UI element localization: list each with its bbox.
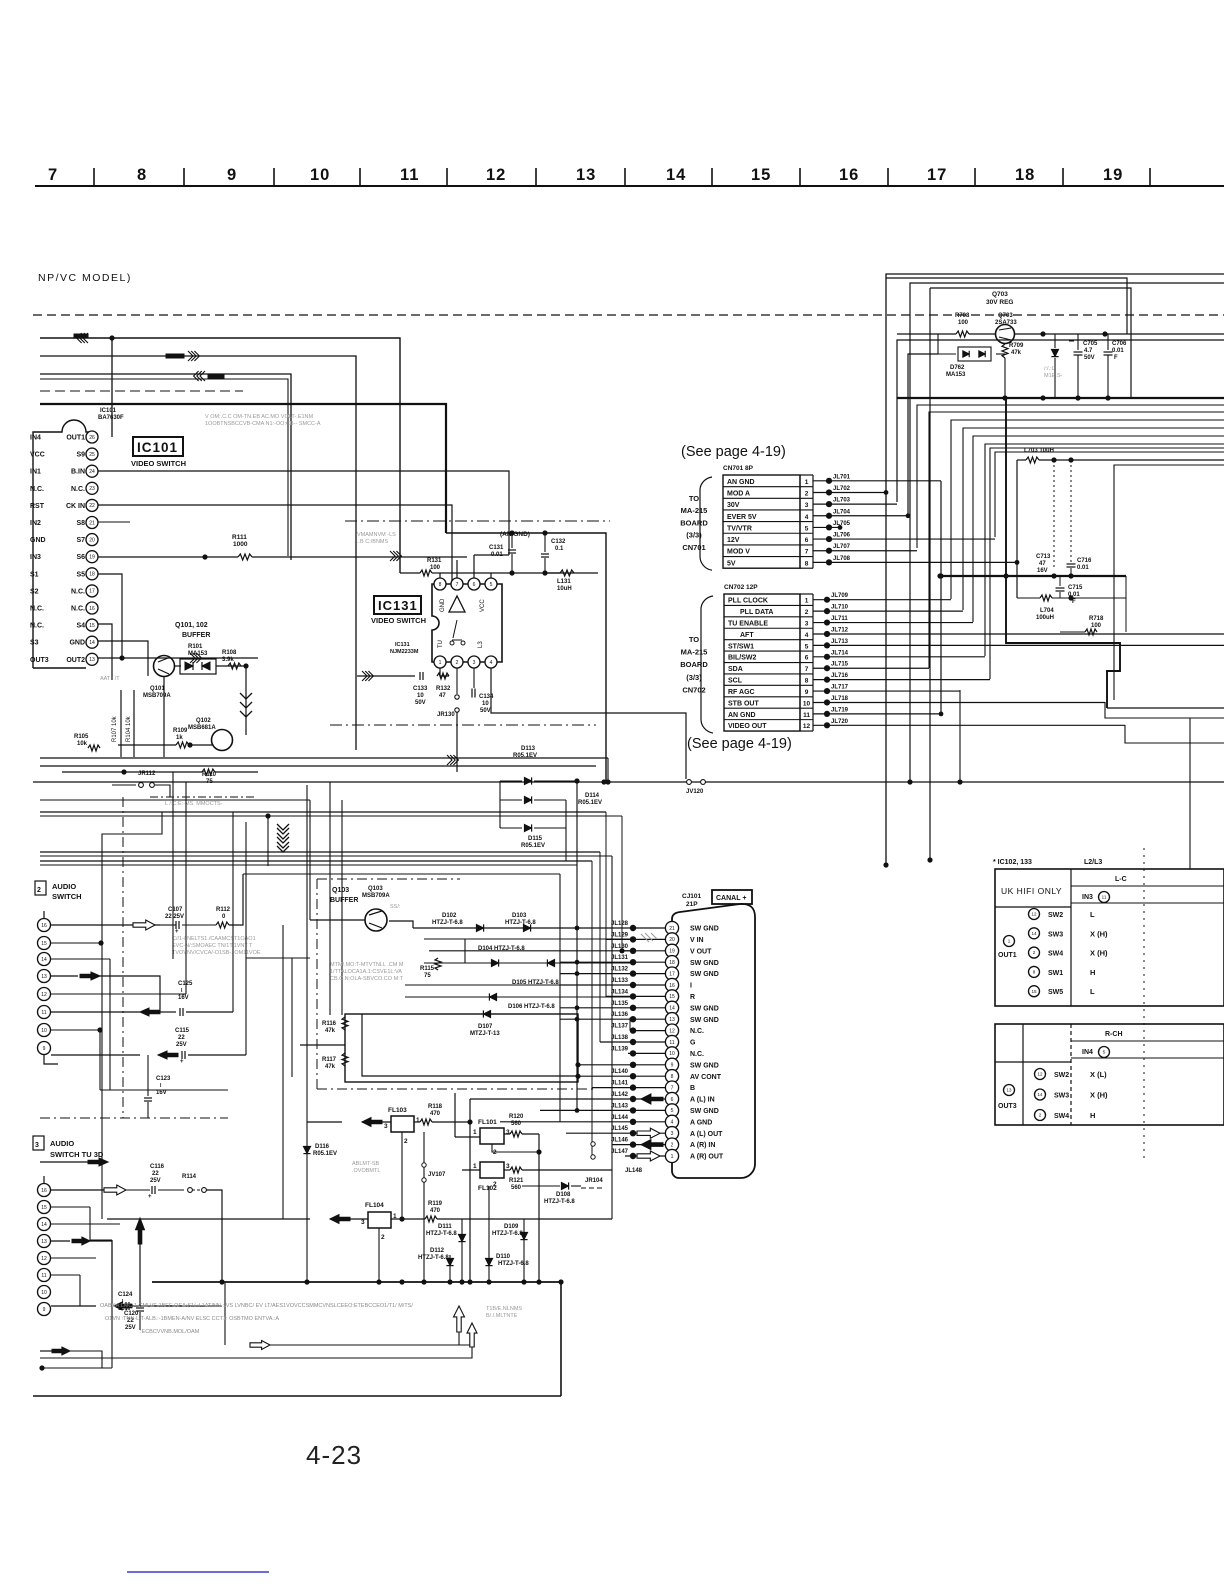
svg-text:1k: 1k (176, 735, 183, 741)
IC101 pin 14 GND (86, 636, 98, 648)
svg-text:560: 560 (511, 1121, 522, 1127)
CANAL pin 21 SW GND (665, 921, 678, 934)
svg-text:3: 3 (506, 1129, 510, 1136)
svg-text:VMAMNVM -LS: VMAMNVM -LS (357, 532, 396, 538)
svg-text:50V: 50V (1084, 355, 1095, 361)
svg-text:R709: R709 (1009, 343, 1024, 349)
CANAL pin 2 A (R) IN (665, 1138, 678, 1151)
svg-text:47k: 47k (325, 1028, 336, 1034)
wire Q102 collector (245, 666, 247, 735)
arrow in chevrons (83, 333, 88, 343)
wire long 874 (243, 873, 560, 875)
IC101 label box (133, 437, 183, 456)
audio switch tag 2 (33, 1136, 44, 1150)
svg-text:OUT3: OUT3 (998, 1103, 1017, 1110)
bus vertical JL717 (959, 690, 961, 782)
svg-text:S1: S1 (30, 571, 39, 578)
svg-text:5V: 5V (727, 560, 736, 567)
svg-text:10: 10 (310, 166, 330, 184)
svg-text:VIDEO OUT: VIDEO OUT (728, 723, 767, 730)
wire JL133 (560, 984, 665, 986)
svg-text:G: G (690, 1040, 696, 1047)
svg-text:47k: 47k (1011, 350, 1022, 356)
wire JL720 drop (1165, 743, 1167, 869)
svg-text:IC101: IC101 (137, 440, 178, 455)
wire 560 下 (559, 1041, 561, 1122)
wire dot row (42, 1367, 112, 1369)
svg-text:RF AGC: RF AGC (728, 689, 755, 696)
svg-text:BUFFER: BUFFER (330, 897, 358, 904)
svg-text:16: 16 (839, 166, 859, 184)
wire feeder 444 (985, 444, 1224, 656)
svg-text:3: 3 (506, 1163, 510, 1170)
svg-text:2: 2 (381, 1234, 385, 1241)
svg-text:L703 10uH: L703 10uH (1024, 448, 1054, 454)
svg-text:SW4: SW4 (1048, 951, 1063, 958)
svg-text:12: 12 (486, 166, 506, 184)
wire audio row 1 (51, 924, 160, 926)
block box inner edge (362, 1014, 578, 1076)
IC101 package outline (33, 420, 92, 668)
svg-text:C715: C715 (1068, 585, 1083, 591)
svg-text:D104 HTZJ-T-6.8: D104 HTZJ-T-6.8 (478, 946, 525, 952)
svg-text:S6: S6 (76, 554, 85, 561)
svg-text:EVC-N/:SMOAEC TN/1T.1VNT T: EVC-N/:SMOAEC TN/1T.1VNT T (172, 943, 253, 949)
IC101 pin 15 S4 (86, 619, 98, 631)
svg-text:TVOVNV/CVCA/-O1SB-. OM11VOE: TVOVNV/CVCA/-O1SB-. OM11VOE (172, 950, 261, 956)
note line (252, 1344, 470, 1346)
svg-text:Q103: Q103 (332, 887, 349, 894)
svg-text:AUDIO: AUDIO (50, 1139, 74, 1148)
svg-text:0.1: 0.1 (555, 546, 564, 552)
ruler tick (799, 168, 801, 186)
svg-text:21: 21 (669, 926, 675, 932)
CANAL pin 17 SW GND (665, 967, 678, 980)
svg-text:CB.C.N:OLA-SBVCO.CO M:T: CB.C.N:OLA-SBVCO.CO M:T (330, 976, 404, 982)
diode D107 (483, 1010, 490, 1017)
svg-text:AUDIO: AUDIO (52, 882, 76, 891)
svg-text:R131: R131 (427, 558, 442, 564)
wire video bus 5 thick (40, 404, 446, 533)
svg-text:D106 HTZJ-T-6.8: D106 HTZJ-T-6.8 (508, 1004, 555, 1010)
wire top right 2 (910, 283, 1224, 782)
svg-text:Q103: Q103 (368, 886, 383, 892)
svg-text:SW3: SW3 (1048, 931, 1063, 938)
svg-text:I: I (690, 983, 692, 990)
svg-text:AN GND: AN GND (728, 712, 756, 719)
wire audio2 row 4 (51, 1240, 70, 1242)
svg-text:D110: D110 (496, 1254, 511, 1260)
R-CH table (995, 1024, 1224, 1125)
svg-text:15: 15 (89, 623, 95, 629)
wire JL148 net (611, 856, 613, 1219)
svg-text:5: 5 (805, 643, 809, 650)
svg-text:BUFFER: BUFFER (182, 632, 210, 639)
svg-text:100: 100 (430, 565, 441, 571)
svg-text:JL141: JL141 (611, 1081, 629, 1087)
IC131 package body (432, 584, 502, 662)
IC101 pin 25 S9 (86, 448, 98, 460)
svg-text:AN GND: AN GND (727, 479, 755, 486)
wire JL141 (592, 1087, 665, 1089)
wire long 856 (40, 855, 612, 857)
svg-text:17: 17 (927, 166, 947, 184)
vertical link 268 (267, 816, 269, 866)
wire row 985 (405, 984, 577, 986)
wire audio row 2 (51, 942, 101, 944)
svg-text:S3: S3 (30, 640, 39, 647)
svg-text:A (R) OUT: A (R) OUT (690, 1154, 724, 1161)
IC131 internal switch (452, 620, 462, 640)
IC131 pins top (434, 578, 446, 590)
svg-text:R05.1EV: R05.1EV (578, 800, 602, 806)
svg-text:AAT : /T: AAT : /T (100, 676, 120, 682)
svg-text:7: 7 (805, 666, 809, 673)
CANAL pin 13 SW GND (665, 1013, 678, 1026)
svg-text:3: 3 (805, 502, 809, 509)
capacitor C705 (1077, 334, 1079, 350)
svg-text:SW GND: SW GND (690, 1017, 719, 1024)
svg-text:16V: 16V (178, 995, 189, 1001)
svg-text:* IC102, 133: * IC102, 133 (993, 859, 1032, 866)
svg-text:JL710: JL710 (831, 605, 849, 611)
svg-text:8: 8 (805, 678, 809, 685)
svg-text:C131: C131 (489, 545, 504, 551)
svg-text:IC131: IC131 (378, 598, 418, 613)
wire pin7 up (456, 560, 458, 578)
wire JL137 (630, 1030, 665, 1032)
wire JL719 (813, 713, 941, 715)
svg-text:SW GND: SW GND (690, 926, 719, 933)
svg-text:(3/3): (3/3) (686, 673, 702, 682)
svg-text:R121: R121 (509, 1178, 524, 1184)
svg-text:50V: 50V (480, 708, 491, 714)
svg-text:TO: TO (689, 494, 699, 503)
svg-text::ECBCVVNB.MOL/OAM: :ECBCVVNB.MOL/OAM (140, 1329, 200, 1335)
svg-text:3.9k: 3.9k (222, 657, 234, 663)
svg-text:TV/VTR: TV/VTR (727, 525, 752, 532)
svg-text:N.C.: N.C. (71, 588, 85, 595)
svg-text:14: 14 (666, 166, 686, 184)
svg-text:R120: R120 (509, 1114, 524, 1120)
svg-text:14: 14 (669, 1006, 675, 1012)
wire audio2 row 2 (51, 1206, 90, 1208)
arrow JL145 hollow (637, 1128, 660, 1138)
svg-text:16: 16 (669, 983, 675, 989)
svg-text:14: 14 (1031, 931, 1037, 936)
svg-text:1OOBTNSBCCVB-CMA N1:-OO:CB-- S: 1OOBTNSBCCVB-CMA N1:-OO:CB-- SMCC-A (205, 421, 321, 427)
shield dash-dot bottom (330, 724, 596, 726)
wire JL715 (813, 667, 929, 669)
svg-text:R708: R708 (955, 313, 970, 319)
capacitor C713 dashed (1053, 460, 1055, 570)
svg-text:JL702: JL702 (833, 486, 851, 492)
svg-text:12: 12 (803, 723, 811, 730)
CANAL pin 6 A (L) IN (665, 1092, 678, 1105)
vertical link 222 (221, 866, 223, 1190)
wire feeder 436 (973, 436, 1224, 622)
svg-text:S7: S7 (76, 537, 85, 544)
svg-text:R108: R108 (222, 650, 237, 656)
jumper JR130 (456, 668, 458, 694)
svg-text:SWITCH TU 3D: SWITCH TU 3D (50, 1150, 104, 1159)
wire audio row 8 (51, 1029, 100, 1031)
svg-text:5: 5 (805, 525, 809, 532)
svg-text:JL148: JL148 (625, 1168, 643, 1174)
wire JL134 (606, 995, 665, 997)
wire long 861 (40, 860, 592, 862)
wire JL147 (625, 1155, 665, 1157)
svg-text:4: 4 (671, 1120, 674, 1126)
transistor Q703 (996, 325, 1015, 344)
svg-text:13: 13 (41, 1239, 47, 1245)
svg-text:(3/3): (3/3) (686, 531, 702, 540)
wire JL720 step (1125, 725, 1224, 743)
resistor R709 47k (1002, 344, 1008, 358)
svg-text:6: 6 (805, 537, 809, 544)
svg-text:3: 3 (361, 1219, 365, 1226)
up arrow hollow 1 (454, 1306, 465, 1332)
svg-text:X (H): X (H) (1090, 929, 1108, 938)
svg-text:14: 14 (41, 1222, 47, 1228)
wire JL718 step (1105, 702, 1224, 718)
svg-text:L: L (1090, 987, 1095, 996)
CANAL pin 3 A (L) OUT (665, 1127, 678, 1140)
svg-text:R105: R105 (74, 734, 89, 740)
svg-text:IN1: IN1 (30, 469, 41, 476)
wire OUT2 (98, 657, 258, 659)
svg-text:1: 1 (805, 479, 809, 486)
vertical into box 342 (341, 800, 343, 1015)
CN701 bracket (700, 477, 712, 570)
svg-text:1: 1 (439, 660, 442, 666)
jumper JV120 (687, 780, 692, 785)
wire JL710 (813, 610, 963, 612)
svg-text:JL707: JL707 (833, 544, 851, 550)
wire pin2 down chevrons (456, 712, 458, 772)
vertical 606 (605, 812, 607, 997)
svg-text:D762: D762 (950, 365, 965, 371)
svg-text:N.C.: N.C. (690, 1028, 704, 1035)
wire R708 feed (897, 340, 1224, 502)
svg-text:2: 2 (456, 660, 459, 666)
svg-text:JL138: JL138 (611, 1035, 629, 1041)
svg-text:HTZJ-T-6.8: HTZJ-T-6.8 (505, 920, 536, 926)
svg-text:JL701: JL701 (833, 474, 851, 480)
svg-text:SW GND: SW GND (690, 971, 719, 978)
svg-text:13: 13 (41, 974, 47, 980)
svg-text:M1E.S-: M1E.S- (1044, 373, 1063, 379)
wire row 950 (429, 950, 633, 952)
vertical JL148 to bottom (611, 1218, 613, 1220)
svg-text:SW GND: SW GND (690, 1108, 719, 1115)
svg-text:2: 2 (37, 887, 41, 894)
svg-text:MOD V: MOD V (727, 549, 750, 556)
svg-text:14: 14 (1037, 1092, 1043, 1097)
wire JV120 line (33, 781, 1224, 783)
svg-text:+: + (180, 1059, 184, 1065)
svg-text:D102: D102 (442, 913, 457, 919)
svg-text:13: 13 (669, 1017, 675, 1023)
bottom rail (33, 1395, 561, 1397)
svg-text:10k: 10k (77, 741, 88, 747)
svg-text:0.01: 0.01 (1112, 348, 1124, 354)
svg-text:R107 10k: R107 10k (112, 715, 118, 742)
svg-text:6: 6 (473, 582, 476, 588)
wire Q103 base (310, 919, 365, 921)
svg-text:JV120: JV120 (686, 789, 704, 795)
transistor Q101 (154, 656, 175, 677)
wire row 939 (424, 938, 633, 940)
IC131 internal triangle (449, 596, 465, 612)
CN702 bracket (701, 596, 713, 733)
svg-text:AFT: AFT (740, 632, 754, 639)
zener D112 (446, 1258, 453, 1265)
svg-text:EVER 5V: EVER 5V (727, 514, 757, 521)
svg-text:R05.1EV: R05.1EV (513, 753, 537, 759)
svg-text:NP/VC MODEL): NP/VC MODEL) (38, 272, 132, 284)
svg-text:4.7: 4.7 (1084, 348, 1093, 354)
svg-text:(See page 4-19): (See page 4-19) (687, 736, 792, 752)
table row SW5 (1029, 986, 1040, 997)
svg-text:UK HIFI ONLY: UK HIFI ONLY (1001, 886, 1062, 896)
wire audio row 7 (51, 1054, 140, 1056)
noise hatch marks (641, 933, 657, 942)
svg-text:JL134: JL134 (611, 989, 629, 995)
svg-text:10: 10 (41, 1290, 47, 1296)
svg-text:30V: 30V (727, 502, 740, 509)
svg-text:470: 470 (430, 1111, 441, 1117)
wire audio row 3 (51, 958, 110, 960)
svg-text:..B C:/BNMS: ..B C:/BNMS (357, 539, 389, 545)
audio switch tag (35, 881, 46, 895)
table row SW2 (1029, 909, 1040, 920)
svg-text:8: 8 (805, 560, 809, 567)
svg-text:CN701 8P: CN701 8P (723, 465, 754, 472)
svg-text:D111: D111 (438, 1224, 452, 1230)
wire JL707 (813, 550, 917, 552)
svg-text:19: 19 (89, 555, 95, 561)
svg-text:19: 19 (1103, 166, 1123, 184)
svg-text:R-CH: R-CH (1105, 1031, 1123, 1038)
svg-text:12: 12 (1037, 1072, 1043, 1077)
wire feeder 428 (963, 428, 1224, 610)
svg-text:H: H (1090, 1111, 1095, 1120)
svg-text:S9: S9 (76, 452, 85, 459)
arrow in 2 (200, 371, 205, 381)
thick up arrow (136, 1218, 145, 1244)
svg-text:JL704: JL704 (833, 509, 851, 515)
wire GND (98, 641, 148, 676)
wire lower right 708 (1107, 707, 1224, 709)
jumper JR104 vertical (591, 1142, 595, 1146)
svg-text:BOARD: BOARD (680, 518, 708, 527)
svg-text:IN4: IN4 (30, 435, 41, 442)
arrow JL142 (641, 1094, 663, 1104)
svg-text:3: 3 (473, 660, 476, 666)
svg-text:C132: C132 (551, 539, 566, 545)
svg-text:12V: 12V (727, 537, 740, 544)
wire JL139 (628, 1052, 665, 1054)
power rail thick (897, 397, 1224, 399)
svg-text:R112: R112 (216, 907, 231, 913)
svg-text:100: 100 (1091, 623, 1102, 629)
wire audio2 row 6 (51, 1274, 80, 1276)
svg-text:Q101, 102: Q101, 102 (175, 622, 208, 629)
table2 row SW2 (1035, 1069, 1046, 1080)
svg-text:BIL/SW2: BIL/SW2 (728, 655, 756, 662)
wire top right 1 (886, 274, 1224, 865)
svg-text:18: 18 (669, 960, 675, 966)
svg-text:SS/:: SS/: (390, 904, 401, 910)
wire long 766 (40, 765, 596, 767)
CANAL label box (712, 890, 752, 904)
IC101 pin 24 B.IN (86, 465, 98, 477)
arrow out (188, 351, 193, 361)
wire link 1090 (100, 1089, 228, 1091)
svg-text:JL719: JL719 (831, 707, 849, 713)
svg-text:25V: 25V (125, 1325, 136, 1331)
svg-text:1000: 1000 (233, 541, 248, 548)
svg-text:.OVOBMTL: .OVOBMTL (352, 1168, 380, 1174)
svg-text:JL132: JL132 (611, 967, 629, 973)
svg-text:GND: GND (440, 598, 446, 612)
wire top right 1b (886, 278, 1127, 334)
wire JL709 (813, 599, 951, 601)
svg-text:R111: R111 (232, 534, 247, 541)
svg-text:S2: S2 (30, 588, 39, 595)
svg-text:22: 22 (89, 503, 95, 509)
wire JL701 (813, 480, 941, 482)
svg-text:IN4: IN4 (1082, 1049, 1093, 1056)
svg-text:25V: 25V (176, 1042, 187, 1048)
svg-text:2: 2 (493, 1181, 497, 1188)
dash-dot corner (150, 796, 255, 798)
svg-text:L-C: L-C (1115, 876, 1127, 883)
svg-text:D112: D112 (430, 1248, 445, 1254)
wire long 816 (40, 815, 622, 817)
table row SW1 (1029, 966, 1040, 977)
svg-text:CN702 12P: CN702 12P (724, 584, 758, 591)
svg-text:D113: D113 (521, 746, 536, 752)
zener D109 (523, 1219, 525, 1282)
wire audio row 5 (51, 993, 186, 995)
junction dot (109, 335, 114, 340)
wire video bus 2 (40, 356, 356, 750)
shield dash-dot top (345, 520, 610, 522)
dash-dot vertical right (1143, 848, 1145, 1160)
svg-text:C124: C124 (118, 1292, 133, 1298)
svg-text:N.C.: N.C. (30, 623, 44, 630)
svg-text:SW4: SW4 (1054, 1113, 1069, 1120)
ruler tick (93, 168, 95, 186)
svg-text:RST: RST (30, 503, 45, 510)
svg-text:10: 10 (669, 1051, 675, 1057)
wire tu arrow (40, 1161, 88, 1163)
svg-text:SW1: SW1 (1048, 970, 1063, 977)
wire audio2 row 5 (51, 1257, 96, 1259)
svg-text:JL718: JL718 (831, 696, 849, 702)
IC101 pin 19 S6 (86, 551, 98, 563)
svg-text:12: 12 (41, 992, 47, 998)
wire feeder 452 (995, 452, 1224, 537)
vertical link 173 (172, 772, 174, 959)
OUT3 cell (1004, 1085, 1015, 1096)
blue footer line (127, 1571, 269, 1573)
svg-text:2: 2 (404, 1138, 408, 1145)
svg-text:SW2: SW2 (1048, 912, 1063, 919)
svg-text:1: 1 (473, 1163, 477, 1170)
